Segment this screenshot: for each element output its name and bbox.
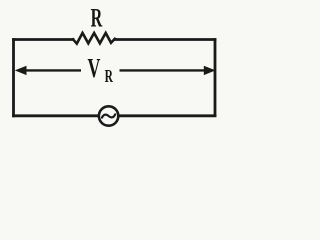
svg-text:R: R bbox=[105, 68, 114, 87]
wire right segment bbox=[214, 40, 217, 116]
voltage arrow V_R right line bbox=[120, 69, 213, 71]
resistor R bbox=[73, 33, 115, 44]
wire top-right segment bbox=[115, 38, 215, 41]
wire bottom-left segment bbox=[14, 114, 98, 117]
ac source V1 bbox=[99, 106, 118, 125]
wire top-left segment bbox=[14, 38, 74, 41]
wire left segment bbox=[12, 40, 15, 116]
ac source sine symbol bbox=[102, 114, 115, 117]
svg-text:R: R bbox=[91, 4, 103, 33]
wire bottom-right segment bbox=[120, 114, 216, 117]
svg-text:V: V bbox=[88, 53, 101, 83]
voltage arrow V_R left head bbox=[15, 66, 27, 75]
voltage arrow V_R left line bbox=[18, 69, 81, 71]
voltage arrow V_R right head bbox=[204, 66, 216, 75]
